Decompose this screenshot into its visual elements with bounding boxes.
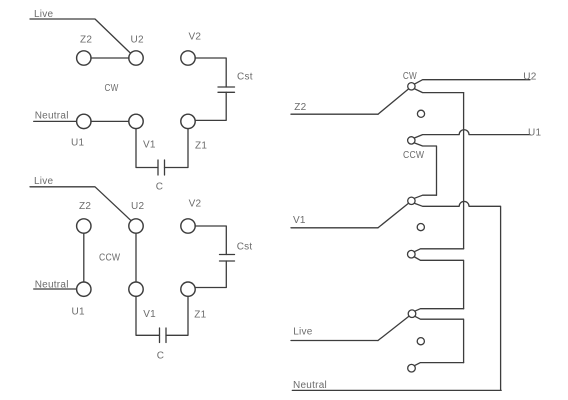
svg-text:C: C	[156, 182, 163, 193]
wire group2 bottom upper throw	[415, 249, 464, 252]
terminal Z1 (CW)	[181, 114, 208, 151]
wire V2 to Cst (CCW)	[195, 226, 226, 255]
wire V1 to C	[136, 129, 158, 168]
svg-text:V1: V1	[143, 140, 156, 151]
node Neutral (CCW)	[34, 280, 77, 291]
svg-text:CCW: CCW	[403, 150, 425, 161]
terminal U2 (CW)	[129, 35, 144, 65]
contact group3 top	[408, 310, 416, 318]
node Neutral (CW)	[34, 111, 77, 122]
node Live (CW)	[30, 9, 131, 53]
contact pivot group2	[417, 224, 424, 231]
wire C to Z1 (CCW)	[166, 296, 188, 335]
node V1 (switch)	[291, 215, 378, 228]
wire C to Z1	[165, 129, 189, 168]
contact CCW	[408, 137, 415, 144]
svg-text:U2: U2	[131, 201, 144, 212]
wire group2 top upper throw	[415, 195, 437, 198]
wire Z2-U2	[91, 57, 129, 59]
contact group2 bottom	[408, 250, 416, 258]
svg-text:Live: Live	[34, 176, 54, 187]
terminal Z2 (CW)	[77, 35, 93, 65]
contact group2 top	[408, 197, 415, 204]
wire U2-V1	[135, 233, 137, 282]
terminal U2 (CCW)	[129, 201, 145, 233]
capacitor Cst (CCW)	[220, 242, 253, 261]
wire V1 to C (CCW)	[136, 296, 160, 335]
svg-text:CCW: CCW	[99, 253, 121, 264]
svg-text:Neutral: Neutral	[293, 380, 327, 391]
terminal U1 (CCW)	[72, 282, 92, 317]
svg-text:Z2: Z2	[294, 102, 306, 113]
svg-text:Neutral: Neutral	[35, 111, 69, 122]
contact pivot group3	[417, 338, 424, 345]
terminal V1 (CCW)	[129, 282, 156, 320]
wire Z2 blade to CW contact	[378, 89, 409, 114]
wire Z2-U1	[83, 233, 85, 282]
svg-text:U1: U1	[71, 138, 84, 149]
wire group3 top upper throw	[415, 309, 464, 312]
terminal Z2 (CCW)	[77, 201, 92, 233]
wire CCW lower throw	[415, 143, 437, 195]
terminal U1 (CW)	[71, 114, 91, 148]
wire Cst to Z1 (CCW)	[195, 261, 226, 288]
svg-text:U1: U1	[72, 306, 85, 317]
svg-text:V1: V1	[143, 309, 156, 320]
capacitor C (CW)	[156, 160, 165, 193]
capacitor C (CCW)	[157, 328, 166, 362]
node Live (CCW)	[30, 176, 131, 221]
wire V2 to Cst	[195, 58, 226, 87]
svg-text:Z2: Z2	[80, 35, 92, 46]
terminal V1 (CW)	[129, 114, 156, 150]
wire Live blade to group3 top contact	[378, 316, 409, 340]
svg-text:Z1: Z1	[195, 141, 207, 152]
wire CCW contact to U1 with hop	[415, 130, 530, 138]
wire CW contact to U2	[415, 80, 530, 84]
wire group2 top to Neutral with hop	[415, 201, 501, 390]
svg-text:V2: V2	[189, 32, 202, 43]
svg-text:Z2: Z2	[79, 201, 91, 212]
terminal V2 (CW)	[181, 32, 202, 66]
wire group3 bottom upper throw	[415, 363, 464, 366]
svg-text:CW: CW	[403, 71, 417, 82]
svg-text:Live: Live	[293, 327, 313, 338]
node Z2 (switch)	[291, 102, 378, 114]
capacitor Cst (CW)	[218, 72, 253, 93]
svg-text:V1: V1	[293, 215, 306, 226]
node Live (switch)	[291, 327, 378, 341]
wire group2 bottom lower throw	[415, 257, 464, 309]
node Neutral (switch)	[292, 380, 501, 391]
contact CW top	[408, 83, 415, 90]
wire V1 blade to group2 top contact	[378, 203, 409, 228]
wire vertical CW chain	[463, 93, 465, 249]
svg-text:CW: CW	[105, 83, 119, 94]
terminal Z1 (CCW)	[181, 282, 207, 321]
svg-text:Z1: Z1	[194, 310, 206, 321]
terminal V2 (CCW)	[181, 198, 202, 233]
svg-text:U2: U2	[523, 72, 536, 83]
wire U1-V1	[91, 120, 129, 122]
svg-text:U2: U2	[131, 35, 144, 46]
wire CW contact lower throw	[415, 89, 464, 93]
svg-text:C: C	[157, 351, 164, 362]
contact pivot group1	[417, 110, 424, 117]
contact group3 bottom	[408, 364, 416, 372]
svg-text:Cst: Cst	[237, 242, 253, 253]
svg-text:V2: V2	[189, 198, 202, 209]
wire Cst to Z1	[195, 92, 226, 120]
wire group3 top lower throw	[415, 316, 464, 362]
svg-text:Cst: Cst	[237, 72, 253, 83]
svg-text:U1: U1	[528, 127, 541, 138]
